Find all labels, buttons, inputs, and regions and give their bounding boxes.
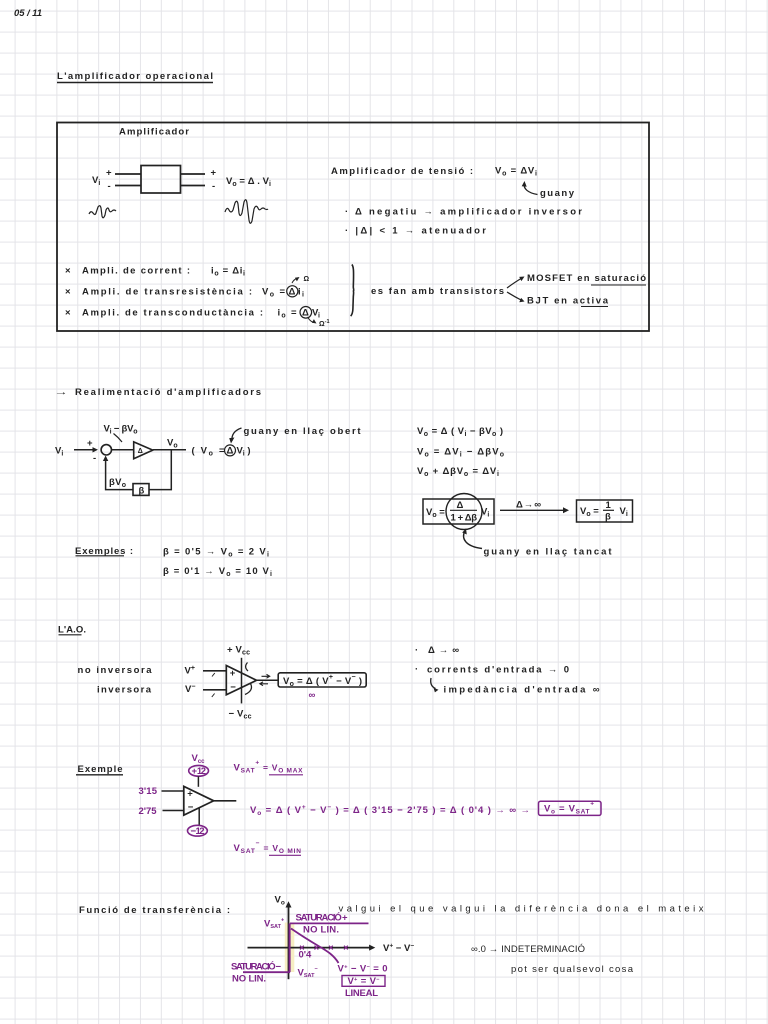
svg-text:0'4: 0'4 [299, 950, 313, 961]
arrow to guany [522, 181, 538, 195]
wire input + example [162, 790, 184, 792]
svg-text:+: + [187, 789, 193, 800]
svg-text:1: 1 [606, 500, 612, 511]
svg-text:Vo = VSAT+: Vo = VSAT+ [544, 801, 594, 816]
svg-text:Vi − βVo: Vi − βVo [104, 424, 138, 436]
svg-text:-: - [212, 181, 215, 192]
label Vcc purple [192, 753, 206, 765]
node Vi feedback [55, 446, 63, 458]
svg-text:V+ = V−: V+ = V− [348, 976, 380, 987]
wire input arrow [74, 447, 98, 452]
boxed op-amp formula [278, 673, 366, 688]
minus sign summing [93, 453, 96, 464]
amp triangle A [134, 442, 153, 459]
formula Vo = DVi [495, 166, 537, 178]
svg-text:Vo = ΔVi: Vo = ΔVi [495, 166, 537, 178]
svg-text:-: - [108, 181, 111, 192]
wire input - [115, 185, 141, 187]
svg-text:es fan amb transistors: es fan amb transistors [371, 286, 504, 297]
svg-text:05 / 11: 05 / 11 [14, 8, 42, 19]
axis tick marks [300, 946, 348, 950]
limit arrow [500, 500, 569, 514]
circle around delta G [300, 307, 312, 319]
svg-text:pot ser qualsevol cosa: pot ser qualsevol cosa [511, 964, 634, 975]
svg-text:Ampli. de transconductància :: Ampli. de transconductància : [82, 308, 263, 319]
svg-text:io = Δii: io = Δii [211, 266, 245, 278]
svg-text:Vo =: Vo = [580, 506, 599, 518]
svg-text:Δ: Δ [138, 448, 143, 455]
node V+ [185, 665, 195, 677]
boxed Vo = Vsat+ [539, 801, 602, 816]
formula Vo = AVi open loop [192, 446, 251, 458]
bullet corrents entrada [415, 664, 569, 676]
svg-text:V+ − V−: V+ − V− [383, 943, 414, 955]
power rail Vcc [241, 658, 243, 704]
input waveform sketch [89, 206, 116, 218]
label es fan amb transistors [371, 286, 504, 297]
note Vsat+ = Vo MAX [234, 760, 304, 775]
svg-text:Vo = ΔVi − ΔβVo: Vo = ΔVi − ΔβVo [417, 447, 504, 459]
note valgui [339, 904, 704, 915]
svg-text:+ 12: + 12 [192, 766, 207, 777]
svg-text:guany en llaç obert: guany en llaç obert [244, 426, 362, 437]
op-amp U2 [184, 786, 214, 815]
svg-text:valgui el que valgui la diferè: valgui el que valgui la diferència dona … [339, 904, 704, 915]
svg-text:2'75: 2'75 [139, 806, 158, 817]
svg-text:β = 0'1 → Vo = 10 Vi: β = 0'1 → Vo = 10 Vi [163, 566, 272, 578]
boxed limit formula [577, 500, 633, 523]
svg-text:Amplificador: Amplificador [119, 127, 189, 138]
svg-text:1 + Δβ: 1 + Δβ [451, 513, 478, 524]
page number 05/11 [14, 8, 42, 19]
title L'amplificador operacional [57, 71, 213, 83]
svg-text:3'15: 3'15 [139, 786, 158, 797]
wire summing to amp [112, 449, 134, 451]
svg-text:VSAT+ = VO MAX: VSAT+ = VO MAX [234, 760, 304, 775]
svg-text:∞: ∞ [309, 690, 316, 701]
note indeterminacio [471, 944, 585, 955]
svg-text:L'A.O.: L'A.O. [58, 625, 86, 636]
small arrows at output [260, 674, 270, 685]
yellow highlight [285, 923, 295, 973]
svg-text:impedància d'entrada ∞: impedància d'entrada ∞ [444, 685, 600, 696]
feedback wire down [149, 450, 171, 490]
svg-text:+: + [230, 668, 236, 679]
omega note [292, 276, 310, 283]
supply +12 [189, 765, 209, 777]
svg-text:− Vcc: − Vcc [229, 709, 252, 721]
wire output - [181, 185, 206, 187]
note qualsevol [511, 964, 634, 975]
svg-text:MOSFET en saturació: MOSFET en saturació [527, 273, 646, 284]
svg-text:Vo = Δ . Vi: Vo = Δ . Vi [226, 176, 271, 188]
heading Amplificador de tensio [331, 166, 473, 177]
svg-text:V+ − V− = 0: V+ − V− = 0 [338, 964, 388, 975]
svg-text:-: - [93, 453, 96, 464]
label guany [540, 188, 575, 199]
svg-text:βVo: βVo [109, 477, 126, 489]
svg-text:guany: guany [540, 188, 575, 199]
example b01 [163, 566, 272, 578]
svg-text:Δ → ∞: Δ → ∞ [516, 500, 541, 511]
svg-text:corrents d'entrada → 0: corrents d'entrada → 0 [427, 665, 569, 676]
omega-1 note [308, 318, 330, 329]
svg-text:no inversora: no inversora [78, 665, 153, 676]
svg-text:Vo = Δ ( V+ − V− ) = Δ ( 3': Vo = Δ ( V+ − V− ) = Δ ( 3'15 − 2'75 ) =… [250, 804, 530, 817]
boxed closed loop formula [423, 499, 494, 524]
svg-text:− 12: − 12 [191, 826, 205, 837]
svg-text:β: β [605, 512, 611, 523]
svg-text:→: → [54, 387, 68, 398]
wire output + [181, 173, 206, 175]
svg-text:Ampli. de corrent :: Ampli. de corrent : [82, 266, 190, 277]
svg-text:∞.0 → INDETERMINACIÓ: ∞.0 → INDETERMINACIÓ [471, 944, 585, 955]
brace [351, 265, 354, 317]
power wire down U2 [198, 808, 200, 825]
node V- [185, 684, 195, 696]
svg-text:Exemple: Exemple [78, 764, 123, 775]
svg-text:Vcc: Vcc [192, 753, 206, 765]
bullet negatiu line [345, 207, 582, 218]
svg-text:SATURACIÓ −: SATURACIÓ − [231, 961, 281, 973]
wire V- input [203, 689, 226, 691]
svg-text:β = 0'5 → Vo = 2 Vi: β = 0'5 → Vo = 2 Vi [163, 547, 269, 559]
label Vsat- [298, 967, 318, 980]
input label 3'15 [139, 786, 158, 797]
label inversora [97, 685, 152, 696]
svg-text:×: × [65, 308, 71, 319]
bullet ampli de corrent [65, 266, 245, 278]
arrow guany tancat [462, 529, 482, 549]
svg-text:BJT en activa: BJT en activa [527, 296, 609, 307]
power label -Vcc [229, 709, 252, 721]
section arrow realimentacio [54, 387, 261, 398]
boxed V+ = V- [342, 976, 385, 988]
label Vi - bVo [104, 424, 138, 443]
svg-text:LINEAL: LINEAL [345, 988, 378, 999]
wire V+ input [203, 670, 226, 672]
bullet ampli de transconductancia [65, 308, 320, 320]
svg-text:guany en llaç tancat: guany en llaç tancat [484, 547, 613, 558]
circle around delta R [287, 286, 298, 297]
label NO LIN bottom [232, 974, 266, 985]
svg-text:Ω-1: Ω-1 [319, 319, 330, 328]
saturation - level line [243, 971, 290, 973]
feedback wire to summing [103, 456, 133, 490]
label bVo [109, 477, 126, 489]
linear vertical segment [289, 923, 291, 972]
svg-text:· Δ negatiu → amplificado: · Δ negatiu → amplificador inversor [345, 207, 582, 218]
wire +12 to op-amp [197, 776, 199, 787]
svg-text:· |Δ| < 1 → atenuador: · |Δ| < 1 → atenuador [345, 226, 486, 237]
svg-text:Ampli. de transresistència :: Ampli. de transresistència : [82, 287, 252, 298]
svg-text:V+: V+ [185, 665, 195, 677]
svg-text:Vo =: Vo = [426, 507, 445, 519]
saturation + level line [290, 922, 369, 924]
svg-text:Vo =: Vo = [262, 287, 285, 299]
label Vsat+ [264, 918, 284, 931]
plus sign summing [87, 438, 93, 449]
label NO LIN top [303, 925, 339, 936]
fork arrow down [507, 292, 525, 302]
curl top [246, 663, 248, 672]
label no inversora [78, 665, 153, 676]
label V+ - V- = 0 [338, 964, 388, 975]
label saturacio + [296, 912, 348, 924]
svg-text:NO LIN.: NO LIN. [303, 925, 339, 936]
svg-text:+: + [211, 168, 217, 179]
svg-text:VSAT− = VO MIN: VSAT− = VO MIN [234, 840, 302, 855]
label 04 [299, 950, 313, 961]
svg-text:Δ → ∞: Δ → ∞ [428, 645, 459, 656]
svg-text:Vi: Vi [55, 446, 63, 458]
bullet atenuador line [345, 226, 486, 237]
output waveform sketch [225, 200, 268, 224]
axis V+ - V- horizontal [248, 943, 415, 955]
svg-text:inversora: inversora [97, 685, 152, 696]
svg-text:Vo + ΔβVo = ΔVi: Vo + ΔβVo = ΔVi [417, 466, 499, 478]
transfer curve [291, 929, 339, 964]
op-amp U1 [226, 666, 256, 695]
svg-text:β: β [139, 486, 145, 497]
svg-text:Vi ): Vi ) [237, 446, 251, 458]
svg-text:Vo = Δ ( V+ − V− ): Vo = Δ ( V+ − V− ) [283, 674, 362, 688]
svg-text:Vi: Vi [312, 308, 320, 320]
example b05 [163, 547, 269, 559]
wire op-amp output [257, 679, 279, 681]
svg-text:Vo: Vo [167, 438, 178, 450]
heading L'A.O. [58, 625, 86, 636]
label MOSFET en saturacio [527, 273, 646, 285]
circle around delta open loop [225, 445, 236, 456]
equation Vo + DbVo = DVi [417, 466, 499, 478]
svg-text:·: · [415, 645, 418, 656]
node Vo [167, 438, 178, 450]
fork arrow up [507, 277, 525, 289]
pin tick + [212, 673, 215, 677]
svg-text:Ω: Ω [304, 276, 310, 283]
svg-text:io =: io = [278, 308, 297, 320]
pin tick - [212, 694, 215, 698]
circle highlight fraction [446, 494, 482, 530]
label LINEAL [345, 988, 378, 999]
input polarity labels [106, 168, 112, 193]
svg-text:Vi: Vi [92, 175, 100, 187]
wire output U2 [214, 800, 237, 802]
svg-text:VSAT−: VSAT− [298, 967, 318, 980]
svg-text:Realimentació d'amplificadors: Realimentació d'amplificadors [75, 387, 261, 398]
label BJT en activa [527, 296, 609, 307]
svg-text:L'amplificador operacional: L'amplificador operacional [57, 71, 213, 82]
heading Funcio de transferencia [79, 905, 230, 916]
svg-text:ii: ii [298, 287, 304, 299]
svg-text:+: + [87, 438, 93, 449]
bullet ampli de transresistencia [65, 287, 304, 299]
big box frame [57, 123, 649, 332]
wire amp output [153, 449, 186, 451]
label guany en llac obert [229, 426, 361, 444]
svg-text:( Vo =: ( Vo = [192, 446, 225, 458]
svg-text:Vi: Vi [620, 506, 628, 518]
svg-text:·: · [415, 664, 418, 675]
svg-text:Funció de transferència :: Funció de transferència : [79, 905, 230, 916]
purple equation chain [250, 804, 530, 817]
node Vi [92, 175, 100, 187]
wire input - example [163, 810, 184, 812]
beta block [133, 484, 149, 497]
two-port amplifier block [141, 166, 181, 194]
svg-text:VSAT+: VSAT+ [264, 918, 284, 931]
label saturacio - [231, 961, 281, 973]
infinity note [309, 690, 316, 701]
input label 2'75 [139, 806, 158, 817]
label Exemple [76, 764, 123, 775]
svg-text:Δ: Δ [457, 500, 464, 511]
svg-text:V−: V− [185, 684, 195, 696]
note Vsat- = Vo MIN [234, 840, 302, 855]
supply -12 [188, 825, 208, 837]
svg-text:Vo: Vo [275, 895, 285, 907]
svg-text:×: × [65, 287, 71, 298]
curl bottom [245, 684, 251, 695]
output polarity labels [211, 168, 217, 193]
value label Vo = D.Vi [226, 176, 271, 188]
axis Vo vertical [275, 895, 292, 980]
label guany en llac tancat [484, 547, 613, 558]
wire input + [115, 173, 141, 175]
summing junction [101, 445, 111, 455]
svg-text:+ Vcc: + Vcc [227, 645, 250, 657]
equation Vo = DVi - DbVo [417, 447, 504, 459]
bullet A to inf [415, 645, 459, 656]
note impedancia [444, 685, 600, 696]
svg-text:−: − [230, 682, 236, 693]
svg-text:+: + [106, 168, 112, 179]
svg-text:×: × [65, 266, 71, 277]
power label +Vcc [227, 645, 250, 657]
hook arrow [431, 678, 439, 692]
svg-text:NO LIN.: NO LIN. [232, 974, 266, 985]
svg-text:Amplificador de tensió :: Amplificador de tensió : [331, 166, 473, 177]
label Amplificador [119, 127, 189, 138]
svg-text:Vo = Δ ( Vi − βVo ): Vo = Δ ( Vi − βVo ) [417, 426, 503, 438]
label Exemples [75, 546, 133, 557]
equation Vo = D(Vi-bVo) [417, 426, 503, 438]
svg-text:−: − [188, 802, 194, 813]
